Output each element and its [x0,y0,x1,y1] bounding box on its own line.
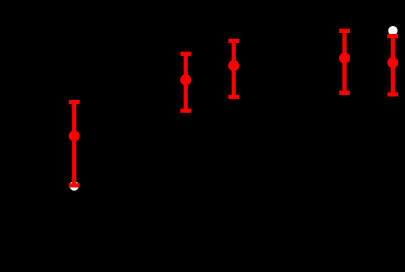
data marker point 2 (red circle) [180,74,191,85]
data marker point 3 (red circle) [228,60,239,71]
open marker (white circle) above point 5 upper limit [388,26,397,35]
data marker point 4 (red circle) [339,53,350,64]
data marker point 1 (red circle) [69,131,80,142]
error bar point 3 [228,41,239,97]
open marker (white circle) under point 1 lower limit [70,181,79,190]
error bar point 2 [180,54,191,111]
data marker point 5 (red circle) [387,57,398,68]
error bar point 1 [69,102,80,185]
error bar point 4 [339,31,350,93]
error bar point 5 [387,36,398,94]
